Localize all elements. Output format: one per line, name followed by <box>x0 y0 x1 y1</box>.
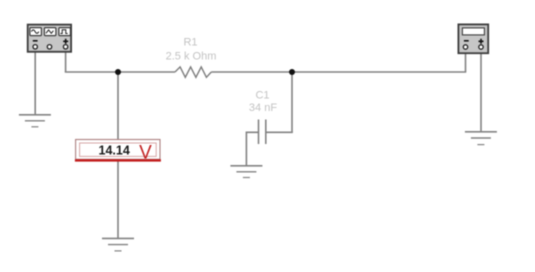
wire: probe branch from node A down to bottom ground <box>117 72 119 238</box>
terminal minus <box>33 45 37 49</box>
ground (bottom, under probe) <box>102 238 134 251</box>
svg-text:14.14: 14.14 <box>99 144 130 158</box>
terminal common <box>47 45 51 49</box>
wire: main horizontal bus left segment (gen to R1) <box>65 71 175 73</box>
wire: multimeter plus terminal to right ground <box>480 49 482 132</box>
wire: main horizontal bus right segment (R1 to multimeter) <box>211 71 466 73</box>
wire: node B vertical to C1 right plate <box>266 131 293 133</box>
minus polarity mark <box>33 40 38 42</box>
sine wave button <box>30 28 42 36</box>
wire: C1 left plate to capacitor ground <box>246 132 258 166</box>
voltage probe readout box <box>75 140 161 164</box>
minus polarity mark <box>464 40 469 42</box>
plus polarity mark <box>479 39 484 44</box>
ground (right, under multimeter) <box>465 132 497 145</box>
node A junction dot <box>115 69 121 75</box>
plus polarity mark <box>63 39 68 44</box>
ground (under capacitor C1) <box>230 166 262 178</box>
node B junction dot <box>289 69 295 75</box>
wire: multimeter minus terminal drop to bus <box>465 49 467 72</box>
multimeter XMM1 <box>458 24 488 53</box>
wire: generator plus terminal down to main bus <box>65 49 67 72</box>
svg-text:34 nF: 34 nF <box>249 102 277 114</box>
function generator XFG1 <box>28 25 71 52</box>
ground (left, under generator) <box>19 115 51 127</box>
svg-text:2.5 k Ohm: 2.5 k Ohm <box>166 51 217 63</box>
square wave button <box>59 28 71 36</box>
wire: generator minus terminal to left ground <box>34 49 36 115</box>
terminal plus <box>63 45 67 49</box>
wire: capacitor branch from node B down <box>291 72 293 133</box>
svg-text:C1: C1 <box>255 90 269 102</box>
terminal plus <box>479 45 483 49</box>
resistor R1 <box>175 67 211 77</box>
terminal minus <box>463 45 467 49</box>
svg-text:R1: R1 <box>183 36 197 48</box>
triangle wave button <box>44 28 56 36</box>
display window <box>462 28 484 35</box>
capacitor C1 <box>259 120 266 145</box>
svg-text:V: V <box>139 143 152 164</box>
probe red underline <box>75 159 161 161</box>
